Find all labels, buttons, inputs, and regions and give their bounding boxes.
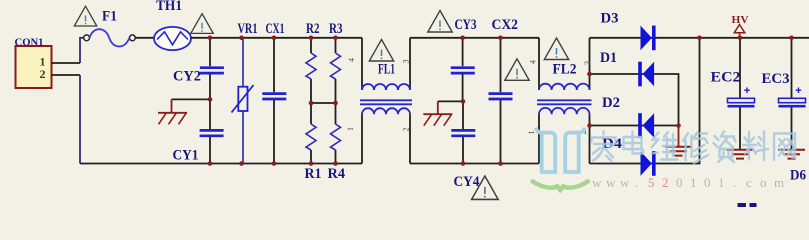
connector CON1 (15, 37, 52, 89)
wire D4 row / bottom right (590, 38, 700, 164)
watermark char 网 (774, 134, 795, 161)
node bridge ground (676, 123, 681, 128)
power port HV (732, 14, 749, 38)
svg-text:1: 1 (718, 175, 725, 190)
node R3-R4 mid (333, 101, 338, 106)
wire R mid junction (311, 102, 336, 104)
svg-text:R4: R4 (328, 166, 346, 182)
svg-text:m: m (774, 175, 784, 190)
wire fuse to TH1 (135, 37, 154, 39)
capacitor CX2 (489, 17, 519, 164)
wire D1 row (590, 74, 679, 126)
wire TH1 to FL1 (top rail left) (191, 37, 362, 39)
svg-text:2: 2 (402, 128, 411, 132)
node top rail CY2 (208, 36, 213, 41)
CON1 pin 2 stub (52, 74, 81, 76)
diode D4 (602, 136, 656, 176)
warning triangle T1 (74, 6, 96, 26)
svg-text:FL1: FL1 (378, 62, 395, 78)
svg-text:CY2: CY2 (173, 69, 201, 85)
node bottom rail CY1 (208, 161, 213, 166)
node top rail R2 (309, 36, 314, 41)
electrolytic capacitor EC2 (711, 38, 755, 149)
warning triangle T5 (505, 59, 529, 81)
node bottom rail CX2 (498, 161, 503, 166)
svg-text:2: 2 (40, 67, 46, 81)
diode D2 (602, 95, 654, 138)
svg-text:D3: D3 (601, 11, 619, 27)
svg-text:HV: HV (732, 14, 749, 26)
wire to chassis ground 1 (172, 98, 211, 100)
watermark char 家 (592, 132, 616, 162)
svg-text:EC2: EC2 (711, 70, 741, 86)
bottom rail left (80, 163, 362, 165)
resistor R4 (328, 103, 346, 182)
node CY2-CY1 ground tap (208, 97, 213, 102)
node top rail CY3 (460, 36, 465, 41)
diode D3 (601, 11, 656, 51)
resistor R3 (329, 21, 343, 103)
svg-text:R2: R2 (306, 21, 320, 37)
watermark char 料 (743, 132, 768, 161)
svg-text:w: w (606, 175, 616, 190)
svg-text:c: c (746, 175, 752, 190)
node CY3-CY4 ground tap (461, 99, 466, 104)
node top rail R3 (333, 36, 338, 41)
watermark book icon (533, 128, 588, 190)
node bottom rail CY4 (461, 161, 466, 166)
svg-text:TH1: TH1 (156, 0, 182, 14)
chassis ground 2 (423, 101, 452, 125)
svg-text:1: 1 (527, 131, 536, 135)
svg-text:R3: R3 (329, 21, 343, 37)
diode D1 (600, 50, 654, 86)
chassis ground 1 (158, 99, 187, 124)
top rail right (HV rail) (590, 37, 809, 39)
varistor VR1 (232, 21, 258, 164)
svg-text:2: 2 (662, 175, 669, 190)
svg-text:R1: R1 (305, 166, 322, 182)
svg-text:1: 1 (346, 127, 355, 131)
warning triangle T4 (428, 11, 452, 33)
svg-text:4: 4 (529, 60, 538, 64)
svg-text:CX1: CX1 (266, 21, 285, 37)
watermark url www.520101.com (592, 175, 784, 190)
svg-text:4: 4 (347, 58, 356, 62)
svg-text:w: w (592, 175, 602, 190)
top rail middle (410, 37, 539, 39)
svg-text:0: 0 (704, 175, 711, 190)
svg-text:3: 3 (402, 60, 411, 64)
svg-text:CON1: CON1 (15, 37, 44, 49)
svg-text:w: w (620, 175, 630, 190)
svg-text:o: o (760, 175, 767, 190)
svg-text:.: . (635, 175, 638, 190)
node R2-R1 mid (309, 101, 314, 106)
earth ground EC2 (727, 150, 754, 159)
label T1 (cut off at bottom edge) (738, 203, 757, 207)
capacitor CY2 (173, 38, 224, 100)
common-mode choke FL2 (527, 38, 592, 164)
node HV rail EC2 (738, 36, 743, 41)
watermark char 修 (683, 133, 708, 164)
svg-text:D2: D2 (602, 95, 620, 111)
svg-text:CY3: CY3 (455, 17, 477, 33)
svg-text:CX2: CX2 (492, 17, 519, 33)
svg-text:5: 5 (648, 175, 655, 190)
node bottom rail VR1 (239, 161, 244, 166)
thermistor TH1 (154, 0, 191, 50)
node top rail VR1 (239, 36, 244, 41)
earth ground EC3 (778, 150, 805, 159)
node bottom rail R4 (333, 161, 338, 166)
capacitor CY1 (173, 99, 224, 163)
node bottom rail R1 (309, 161, 314, 166)
resistor R2 (306, 21, 320, 103)
capacitor CY3 (451, 17, 477, 101)
svg-text:CY4: CY4 (454, 174, 480, 190)
wire to chassis ground 2 (438, 100, 463, 102)
warning triangle T2 (191, 14, 213, 34)
warning triangle T3 (369, 40, 393, 62)
svg-text:FL2: FL2 (553, 62, 577, 78)
fuse F1 (84, 9, 136, 47)
svg-text:D1: D1 (600, 50, 617, 66)
common-mode choke FL1 (346, 38, 412, 164)
node HV rail D4 riser (697, 36, 702, 41)
warning triangle T6 (544, 38, 568, 60)
svg-text:F1: F1 (102, 9, 117, 25)
svg-text:VR1: VR1 (238, 21, 258, 37)
wire CON1 pin2 to bottom rail (79, 75, 81, 164)
svg-text:0: 0 (676, 175, 683, 190)
node AC1 D1 tap (587, 72, 592, 77)
svg-text:3: 3 (583, 61, 592, 65)
svg-text:D6: D6 (790, 168, 806, 184)
watermark char 维 (652, 132, 678, 160)
CON1 pin 1 stub (52, 62, 81, 64)
electrolytic capacitor EC3 (762, 38, 806, 149)
wire D2 row (590, 125, 679, 127)
capacitor CX1 (262, 21, 286, 164)
svg-text:1: 1 (690, 175, 697, 190)
earth ground bridge (665, 126, 692, 156)
node AC2 D2 tap (587, 123, 592, 128)
node top rail CX2 (498, 36, 503, 41)
resistor R1 (305, 103, 322, 182)
capacitor CY4 (451, 101, 479, 190)
svg-text:EC3: EC3 (762, 71, 790, 87)
bottom rail middle (410, 163, 539, 165)
wire CON1 pin1 to fuse (80, 38, 84, 63)
watermark char 电 (624, 132, 644, 154)
svg-text:CY1: CY1 (173, 148, 199, 164)
watermark char 资 (714, 132, 736, 163)
node bottom rail CX1 (272, 161, 277, 166)
node top rail CX1 (272, 36, 277, 41)
node HV rail EC3 (789, 36, 794, 41)
svg-text:.: . (733, 175, 736, 190)
warning triangle T7 (472, 176, 499, 199)
